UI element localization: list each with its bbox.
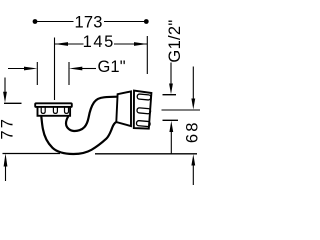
dim 68 upper arrow (down) (191, 99, 195, 110)
dim G1 leader tail left (8, 68, 25, 70)
dim 77 upper leader (4, 78, 6, 93)
inlet nut body (38, 107, 71, 116)
dim 145 line (55, 43, 148, 45)
dim 173 end dot left (33, 19, 38, 24)
dim G1 tick left (36, 62, 38, 85)
dim G1/2 lower arrow (up) (169, 121, 173, 132)
dim 145 extension line right (146, 36, 148, 74)
dim G1 arrow right (points left) (69, 67, 82, 71)
inlet nut slot 2 (53, 107, 57, 114)
dim 173 end dot right (144, 19, 149, 24)
outlet nut slot 3 (136, 120, 150, 126)
outlet nut slot 1 (137, 94, 151, 100)
svg-text:145: 145 (83, 33, 115, 51)
dim G1/2 lower leader (170, 132, 172, 154)
dim 145 arrow right (134, 42, 147, 46)
dim 68 lower arrow (up) (191, 154, 195, 165)
dim 173 line (37, 21, 145, 23)
trap outer bend wall (41, 117, 116, 155)
wire baseline left segment (3, 153, 61, 155)
trap inner spiral wall (hole + outlet top wall) (66, 97, 117, 131)
dim G1/2 lower tick (163, 119, 179, 121)
dim 77 lower leader (5, 164, 7, 181)
svg-text:77: 77 (0, 117, 16, 140)
dim G1 tick right (68, 62, 70, 85)
dim G1/2 upper arrow (down) (169, 84, 173, 95)
dim G1 leader tail right (82, 68, 96, 70)
dim 77 lower arrow (up) (4, 153, 8, 166)
dim 68 extension line (162, 109, 201, 111)
inlet nut slot 1 (41, 107, 45, 114)
dim 77 upper arrow (down) (3, 92, 7, 103)
wire baseline right segment (95, 153, 197, 155)
outlet nut slot 2 (137, 108, 151, 114)
outlet nut body (134, 91, 152, 129)
dim G1 arrow left (points right) (24, 67, 37, 71)
dim 68 upper leader (192, 67, 194, 100)
dim 77 tick (4, 102, 22, 104)
dim G1/2 upper tick (163, 94, 177, 96)
svg-text:G1": G1" (98, 58, 126, 76)
svg-text:G1/2": G1/2" (166, 19, 184, 62)
svg-text:68: 68 (184, 120, 200, 143)
dim 145 arrow left (55, 42, 69, 46)
dim 68 lower leader (192, 165, 194, 185)
inlet nut rim (35, 103, 72, 107)
outlet cone (116, 91, 131, 126)
inlet nut slot 3 (65, 107, 69, 114)
svg-text:173: 173 (75, 13, 103, 31)
dim 145 extension line left (54, 38, 56, 101)
dim G1/2 upper leader (170, 63, 172, 85)
